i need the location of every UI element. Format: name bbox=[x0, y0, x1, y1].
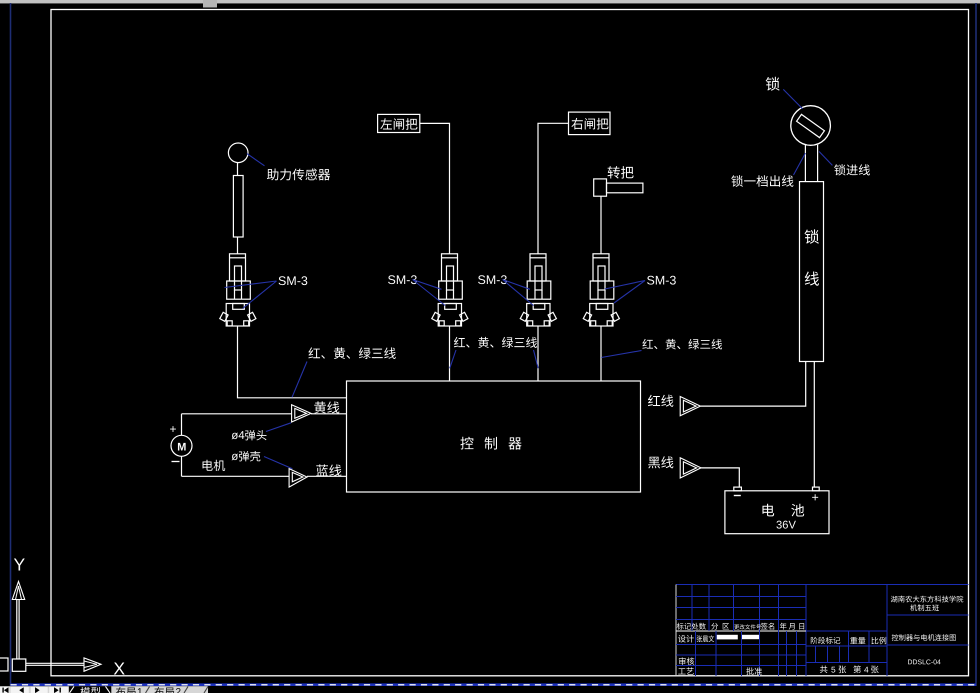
title block middle grid bbox=[806, 631, 887, 663]
throttle grip bbox=[594, 179, 607, 196]
PAS sensor body bbox=[233, 176, 243, 238]
wire right brake to J3 bbox=[538, 123, 569, 254]
leader SM-3 J3 b bbox=[503, 280, 534, 306]
connector arrow 红线 bbox=[680, 397, 700, 416]
title block right grid bbox=[887, 615, 969, 645]
lock switch body bbox=[791, 106, 831, 146]
leader SM-3 J2 a bbox=[413, 280, 442, 290]
label ø弹壳 bbox=[232, 451, 261, 461]
leader SM-3 J3 a bbox=[503, 280, 531, 290]
status tab 布局1 bbox=[116, 687, 150, 693]
paper edge left bbox=[10, 3, 12, 686]
battery terminal - bbox=[734, 487, 742, 491]
tb signature blobs bbox=[717, 635, 759, 640]
wire left brake to J2 bbox=[420, 123, 450, 253]
battery minus sign bbox=[734, 495, 741, 497]
label 电池 bbox=[762, 504, 804, 517]
tb 批准 bbox=[746, 667, 762, 675]
label 锁进线 bbox=[834, 164, 870, 175]
battery BT1 box bbox=[725, 491, 829, 534]
leader 3wire #1 bbox=[292, 362, 307, 398]
wire black to battery bbox=[701, 468, 739, 487]
leader ø4弹头 bbox=[266, 423, 291, 432]
motor plus bbox=[170, 426, 176, 432]
label 黄线 bbox=[314, 401, 339, 413]
tb 工艺 bbox=[678, 667, 693, 674]
tb 重量 bbox=[850, 637, 865, 644]
connector arrow 黄线 bbox=[292, 405, 311, 422]
motor M1 bbox=[171, 435, 192, 456]
label 黑线 bbox=[648, 456, 673, 468]
wire motor to yellow tri bbox=[182, 413, 292, 415]
leader 3wire #3 bbox=[601, 351, 641, 358]
leader ø弹壳 bbox=[264, 457, 292, 469]
wire J1 to controller bbox=[238, 326, 347, 398]
connector arrow 黑线 bbox=[680, 458, 701, 478]
label 36V bbox=[776, 521, 795, 529]
leader SM-3 J1 a bbox=[225, 281, 277, 288]
connector J3 (SM-3) right brake bbox=[520, 254, 556, 326]
UCS origin square bbox=[12, 659, 25, 671]
leader SM-3 J2 b bbox=[413, 280, 446, 306]
label 助力传感器 bbox=[267, 169, 330, 181]
label ø4弹头 bbox=[232, 430, 267, 440]
UCS Y label bbox=[14, 558, 25, 570]
tb drawing number bbox=[908, 659, 941, 664]
tb 阶段标记 bbox=[811, 637, 841, 644]
leader to sensor head bbox=[247, 154, 265, 166]
leader SM-3 J4 a bbox=[605, 281, 645, 290]
UCS X arrowhead bbox=[84, 658, 101, 671]
wire motor- vert bbox=[181, 456, 183, 476]
lock neck bbox=[805, 145, 817, 182]
wire blue tri to controller bbox=[307, 475, 347, 477]
label 电机 bbox=[203, 460, 226, 471]
wire sensor body-J1 bbox=[237, 237, 239, 254]
label 线 (cable) bbox=[805, 271, 819, 285]
toolbar strip bbox=[0, 0, 980, 7]
label 锁一档出线 bbox=[731, 175, 793, 187]
motor minus bbox=[172, 461, 180, 463]
leader 锁一档出线 bbox=[794, 153, 806, 175]
battery plus sign bbox=[812, 494, 818, 500]
UCS X label bbox=[114, 662, 125, 674]
connector J1 (SM-3) PAS bbox=[220, 254, 256, 326]
label 红、黄、绿三线 #1 bbox=[308, 347, 395, 359]
UCS Y shaft bbox=[17, 600, 19, 660]
lock key slot bbox=[797, 114, 825, 137]
box 左闸把 bbox=[378, 114, 420, 132]
leader 锁进线 bbox=[819, 152, 832, 166]
status tab 布局2 bbox=[154, 687, 188, 693]
tb 审核 bbox=[679, 657, 694, 665]
label 红、黄、绿三线 #2 bbox=[454, 337, 537, 348]
wire lock to battery + bbox=[813, 362, 815, 488]
wire throttle to J4 bbox=[600, 196, 602, 254]
leader 锁 bbox=[783, 89, 802, 108]
tb header row bbox=[677, 623, 804, 630]
battery terminal + bbox=[813, 487, 820, 491]
label 锁 bbox=[766, 77, 780, 91]
label 右闸把 bbox=[571, 118, 608, 130]
label 转把 bbox=[608, 166, 634, 178]
leader 3wire #2 a bbox=[450, 350, 456, 368]
leader SM-3 J1 b bbox=[243, 281, 277, 309]
wire sensor head-body bbox=[237, 163, 239, 176]
label SM-3 J1 bbox=[279, 276, 308, 285]
leader SM-3 J4 b bbox=[614, 281, 645, 304]
status nav buttons bbox=[0, 686, 208, 693]
wire motor to blue tri bbox=[182, 475, 290, 477]
tb 比例 bbox=[872, 637, 887, 644]
label SM-3 J2 bbox=[388, 275, 417, 284]
tb drawing title 控制器与电机连接图 bbox=[892, 634, 956, 641]
wire J3 to controller bbox=[537, 326, 539, 381]
PAS sensor head bbox=[228, 143, 248, 163]
label 锁 (cable) bbox=[804, 229, 818, 243]
wire motor+ vert bbox=[181, 414, 183, 436]
label SM-3 J3 bbox=[478, 275, 507, 284]
selection dashed line bbox=[11, 683, 977, 686]
label 蓝线 bbox=[316, 464, 341, 476]
UCS Y arrowhead bbox=[12, 582, 24, 600]
title block grid bbox=[676, 585, 968, 676]
label 红线 bbox=[648, 395, 673, 407]
label 左闸把 bbox=[380, 118, 417, 130]
tb 张晨文 bbox=[697, 635, 714, 642]
wire J2 to controller bbox=[449, 326, 451, 381]
lock cable 锁线 box bbox=[800, 182, 824, 362]
wire yellow tri to controller bbox=[311, 413, 347, 415]
box 右闸把 bbox=[569, 112, 611, 135]
throttle bar bbox=[607, 183, 643, 193]
label 控制器 bbox=[460, 437, 521, 450]
connector J2 (SM-3) left brake bbox=[432, 254, 468, 326]
connector J4 (SM-3) throttle bbox=[583, 254, 619, 326]
tb 共5张第4张 bbox=[820, 665, 879, 673]
leader 3wire #2 b bbox=[534, 350, 539, 368]
UCS X shaft bbox=[26, 663, 84, 665]
wire red to lock bbox=[700, 362, 805, 407]
status tab 模型 bbox=[69, 686, 112, 693]
tb school name bbox=[891, 596, 963, 603]
corner square bbox=[0, 658, 8, 671]
tb 设计 bbox=[678, 635, 694, 643]
wire J4 to controller bbox=[600, 326, 602, 381]
paper edge right bbox=[975, 3, 977, 686]
connector arrow 蓝线 bbox=[289, 469, 307, 488]
label SM-3 J4 bbox=[647, 276, 676, 285]
controller U1 box bbox=[347, 381, 641, 492]
label 红、黄、绿三线 #3 bbox=[642, 339, 722, 350]
status bar end bbox=[204, 687, 208, 693]
tb class bbox=[910, 604, 939, 611]
